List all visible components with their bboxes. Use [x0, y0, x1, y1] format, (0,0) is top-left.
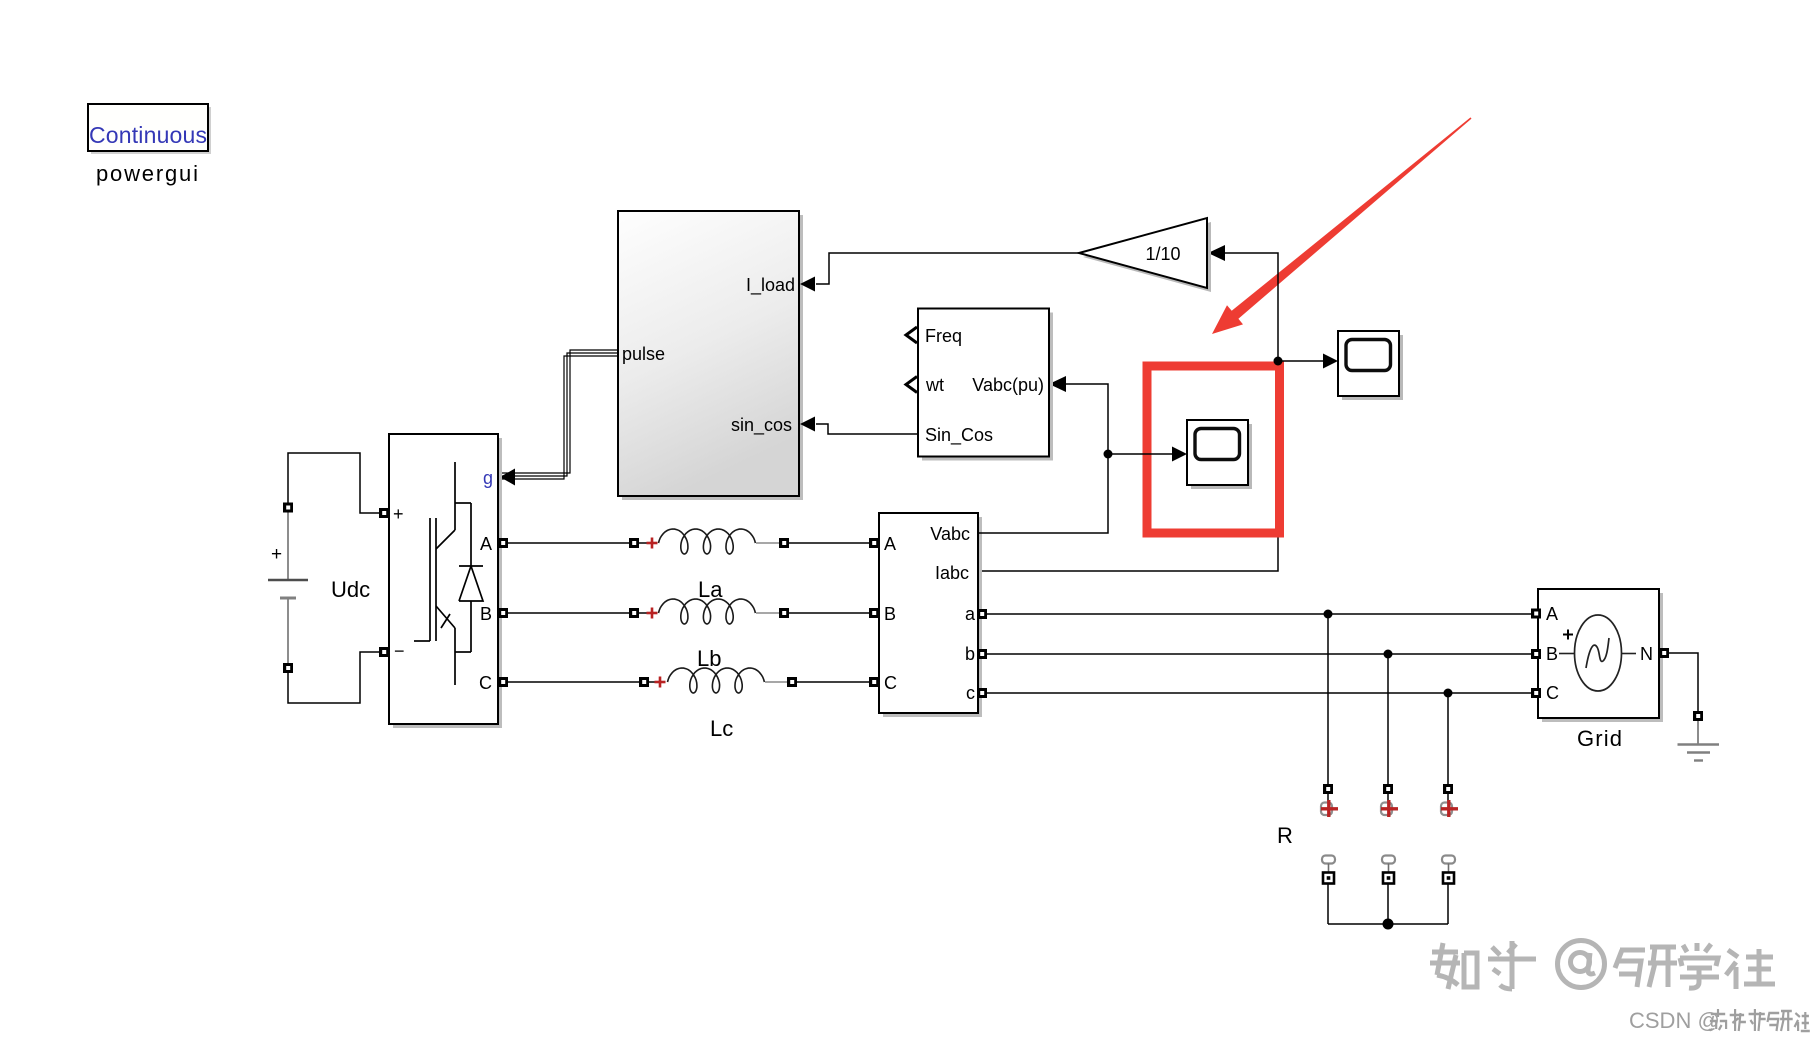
svg-text:Freq: Freq [925, 326, 962, 346]
watermark zhihu [1430, 941, 1775, 989]
svg-text:b: b [965, 644, 975, 664]
svg-text:−: − [394, 641, 405, 661]
powergui block [88, 104, 211, 186]
svg-text:Continuous: Continuous [89, 122, 207, 148]
inductor La [629, 529, 789, 602]
inverter ports [379, 508, 389, 518]
resistor branch Rb [1381, 784, 1398, 924]
wire R star bus [1328, 923, 1448, 925]
pulse generator subsystem block [618, 211, 803, 500]
gain 1/10 block [1079, 218, 1211, 292]
svg-text:A: A [1546, 604, 1558, 624]
wire drop b to R [1387, 654, 1389, 784]
char li [1709, 1009, 1726, 1030]
wire Sin_Cos -> sin_cos [816, 424, 918, 434]
svg-text:c: c [966, 683, 975, 703]
char zhi [1430, 943, 1477, 989]
annotation red highlight rectangle [1147, 366, 1280, 533]
three-phase V-I measurement block [869, 513, 987, 717]
svg-text:R: R [1277, 823, 1293, 848]
wire phase c to Grid C [987, 692, 1531, 694]
svg-text:C: C [884, 673, 897, 693]
scope1 (top right) [1338, 331, 1403, 400]
wire N to ground [1669, 653, 1698, 711]
watermark at-sign [1558, 941, 1605, 988]
svg-text:N: N [1640, 644, 1653, 664]
svg-text:B: B [884, 604, 896, 624]
ground symbol [1678, 721, 1720, 761]
svg-text:a: a [965, 604, 976, 624]
battery symbol [287, 512, 289, 580]
svg-text:+: + [271, 544, 282, 565]
svg-text:Vabc: Vabc [930, 524, 970, 544]
char zhi [1730, 1009, 1746, 1031]
wire phase a to Grid A [987, 613, 1531, 615]
char xue [1680, 943, 1719, 988]
annotation red arrow [1212, 117, 1472, 334]
scope2 (inside red box) [1187, 420, 1252, 489]
svg-text:pulse: pulse [622, 344, 665, 364]
char yan2 [1768, 1011, 1793, 1031]
char she2 [1795, 1012, 1810, 1031]
resistor branch Ra [1321, 784, 1338, 924]
wire Vabc -> PLL Vabc(pu) with branch to scope2 [978, 384, 1108, 533]
wire inverter C to Lc [508, 681, 639, 683]
wire inverter A to La [508, 542, 629, 544]
node junction c [1444, 689, 1453, 698]
svg-text:La: La [698, 577, 723, 602]
svg-text:C: C [1546, 683, 1559, 703]
svg-text:A: A [480, 534, 492, 554]
wire Iabc: measurement Iabc output up right column (partly under red box) [978, 361, 1278, 571]
node junction Vabc/scope2 [1104, 450, 1113, 459]
svg-text:A: A [884, 534, 896, 554]
svg-text:Udc: Udc [331, 577, 370, 602]
svg-text:I_load: I_load [746, 275, 795, 296]
svg-text:Sin_Cos: Sin_Cos [925, 425, 993, 446]
char yan [1615, 947, 1677, 987]
wire Lc to measurement C [797, 681, 869, 683]
char ke [1749, 1009, 1766, 1031]
svg-text:B: B [480, 604, 492, 624]
svg-text:sin_cos: sin_cos [731, 415, 792, 436]
node junction a [1324, 610, 1333, 619]
Grid source block [1531, 589, 1669, 751]
wire battery bottom loop [288, 652, 379, 703]
char hu [1488, 941, 1536, 989]
svg-text:g: g [483, 468, 493, 488]
svg-text:Grid: Grid [1577, 726, 1622, 751]
wire branch to scope2 [1108, 453, 1175, 455]
wire inverter B to Lb [508, 612, 629, 614]
wire Lb to measurement B [789, 612, 869, 614]
svg-text:powergui: powergui [96, 161, 198, 186]
svg-text:Lc: Lc [710, 716, 733, 741]
DC source Udc [268, 453, 379, 703]
PLL block (Freq/wt/Vabc(pu)/Sin_Cos) [906, 309, 1053, 461]
wire drop a to R [1327, 614, 1329, 784]
svg-text:Vabc(pu): Vabc(pu) [972, 375, 1044, 395]
svg-text:wt: wt [925, 375, 944, 395]
wire La to measurement A [789, 542, 869, 544]
arrowhead into g port [500, 469, 515, 486]
wire gain output to I_load [816, 253, 1079, 284]
node junction b [1384, 650, 1393, 659]
node junction star point [1383, 919, 1394, 930]
IGBT symbol [414, 462, 483, 685]
unconnected output chevron Freq [906, 327, 917, 343]
svg-text:CSDN @: CSDN @ [1629, 1008, 1720, 1033]
svg-text:Iabc: Iabc [935, 563, 969, 583]
resistor branch Rc [1441, 784, 1458, 924]
wire phase b to Grid B [987, 653, 1531, 655]
inductor Lc [639, 668, 797, 741]
wire Iabc up to gain 1/10 [1224, 253, 1278, 361]
svg-text:B: B [1546, 644, 1558, 664]
inductor Lb [629, 599, 789, 671]
svg-text:Lb: Lb [697, 646, 721, 671]
svg-text:1/10: 1/10 [1145, 244, 1180, 264]
wire battery top loop [288, 453, 379, 513]
inverter block (universal bridge) [379, 434, 508, 728]
wire drop c to R [1447, 693, 1449, 784]
node junction Iabc/scope1 [1274, 357, 1283, 366]
wire Iabc branch to scope1 [1278, 360, 1326, 362]
wire pulse->g (vector triple line) [502, 350, 618, 479]
svg-text:+: + [393, 504, 404, 524]
unconnected output chevron wt [906, 377, 917, 393]
char she [1726, 949, 1775, 989]
svg-text:C: C [479, 673, 492, 693]
